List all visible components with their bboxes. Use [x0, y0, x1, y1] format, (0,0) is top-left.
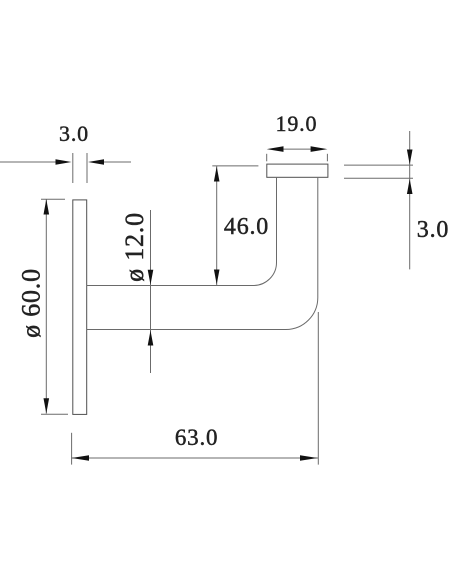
svg-text:46.0: 46.0 [224, 214, 269, 240]
svg-text:19.0: 19.0 [276, 111, 318, 136]
svg-text:3.0: 3.0 [59, 121, 89, 146]
svg-text:63.0: 63.0 [175, 425, 218, 450]
svg-text:ø 60.0: ø 60.0 [17, 268, 46, 338]
svg-text:ø 12.0: ø 12.0 [120, 212, 149, 282]
svg-text:3.0: 3.0 [417, 217, 449, 243]
